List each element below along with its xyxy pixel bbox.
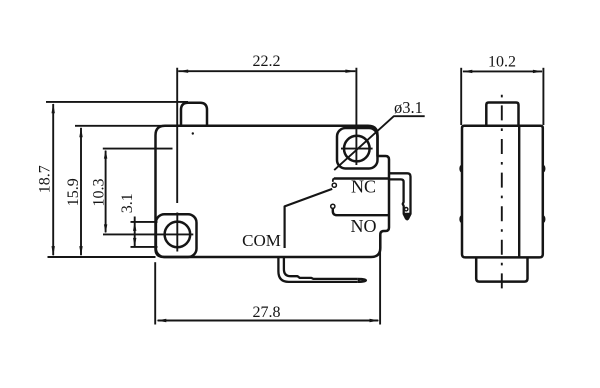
svg-text:NO: NO: [351, 216, 377, 236]
svg-text:15.9: 15.9: [65, 178, 82, 206]
svg-text:10.3: 10.3: [90, 179, 107, 207]
svg-text:27.8: 27.8: [253, 304, 281, 321]
svg-text:22.2: 22.2: [253, 53, 281, 70]
svg-text:18.7: 18.7: [37, 165, 54, 193]
svg-text:3.1: 3.1: [119, 193, 136, 213]
svg-text:NC: NC: [351, 177, 376, 197]
svg-text:ø3.1: ø3.1: [394, 98, 423, 117]
svg-text:COM: COM: [242, 231, 281, 250]
svg-text:10.2: 10.2: [488, 54, 516, 71]
